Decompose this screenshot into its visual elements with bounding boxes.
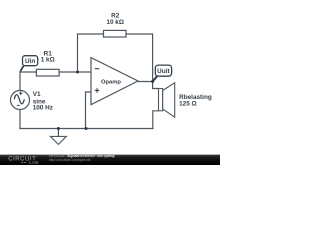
svg-text:Uuit: Uuit [157,68,170,75]
svg-text:10 kΩ: 10 kΩ [106,19,124,26]
svg-text:Opamp: Opamp [101,80,121,86]
svg-text:100 Hz: 100 Hz [33,105,53,112]
svg-text:V1: V1 [33,91,41,98]
svg-text:http://circuitlab.com/cgrkcdk: http://circuitlab.com/cgrkcdk [49,158,91,162]
svg-text:125 Ω: 125 Ω [179,100,197,107]
svg-text:LAB: LAB [29,160,39,165]
svg-text:Uin: Uin [25,58,35,65]
svg-text:1 kΩ: 1 kΩ [41,57,55,64]
